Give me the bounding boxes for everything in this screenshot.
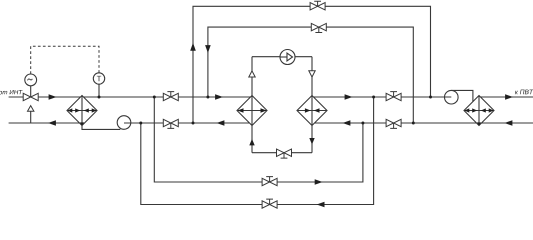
wire: HX3 top riser [311, 57, 313, 96]
junction: B1 on return [361, 122, 364, 125]
wire: HX3 bottom drop [311, 126, 313, 153]
junction: M1 on return [192, 122, 195, 125]
flow arrow: left on circulation line B2 [317, 202, 325, 208]
wire: return main middle (HX3 to HX4) [313, 122, 478, 124]
wire: circulation line B2 (supply x373.6 down, y204.5 across, up to return x141) [141, 97, 374, 205]
flow arrow: return from right edge [505, 120, 513, 126]
wire: circulation top header [252, 56, 312, 58]
junction: B2 on return [139, 122, 142, 125]
wire: P3 discharge to HX4 [451, 90, 473, 101]
flow arrow: open triangle up on HX2 riser [249, 71, 255, 77]
flow arrow: right on bypass B1 [315, 179, 323, 185]
wire: HX2 top riser [251, 57, 253, 96]
flow arrow: supply after 3-way valve [49, 94, 57, 100]
flow arrow: down from HX3 bottom [309, 138, 314, 145]
junction: B2 on supply [372, 96, 375, 99]
wire: supply from HX3 into P3 [314, 96, 452, 98]
flow arrow: up on mixing line M1 [190, 43, 196, 51]
actuator stem [30, 86, 32, 97]
flow arrow: open triangle down on HX3 riser [309, 71, 315, 77]
heat exchanger HX2 (middle left) [237, 96, 267, 126]
temperature sensor stem [98, 84, 100, 97]
junction: M1 on supply [429, 96, 432, 99]
wire: HX2 bottom drop [251, 126, 253, 153]
valve V3 (return, middle) [163, 119, 178, 128]
wire: mixing line M1 (return x193 up, top header y6, down to supply x430) [193, 6, 431, 123]
wire: 3-way valve bottom port to return [30, 111, 32, 123]
flow arrow: return toward HX3 [343, 120, 351, 126]
flow arrow: return toward left edge [48, 120, 56, 126]
node label: от ИНТ [0, 90, 23, 94]
wire: circulation bottom header [252, 152, 312, 154]
valve V9 (bypass B1) [262, 177, 277, 186]
flow arrow: supply before HX2 [215, 94, 223, 100]
heat exchanger HX4 (right) [464, 96, 494, 126]
flow arrow: down on mixing line M2 [205, 45, 211, 53]
control link: dashed line actuator to T sensor [31, 46, 99, 74]
valve V2 (supply, middle) [163, 92, 178, 101]
valve V6 (circulation bottom header) [277, 149, 292, 158]
valve V5 (header y27) [311, 23, 326, 32]
junction: M2 on return [412, 122, 415, 125]
flow arrow: return from HX2 [217, 120, 225, 126]
pump P3 (on supply before HX4) [445, 90, 459, 104]
junction: B1 on supply [153, 96, 156, 99]
wire: mixing line M2 (supply x208 up, header y27, down to return x413) [208, 27, 413, 123]
temperature sensor T1 (circle with T) [93, 73, 104, 84]
pump P1 (circulation pump on return, left) [117, 116, 131, 130]
wire: return from P1 to HX2 [124, 122, 250, 124]
heat exchanger HX1 (1st stage, left) [67, 96, 97, 126]
wire: bypass B1 (supply x154 down, y182 across, up to return x363) [154, 97, 363, 182]
valve V8 (return, right) [386, 119, 401, 128]
actuator M1 (electric drive, circle with ~) [25, 74, 37, 86]
valve V10 (circulation line B2) [262, 199, 277, 208]
wire: supply main right (HX4 to ПВТ) [479, 96, 533, 98]
wire: return main left (HX1 outlet to left edge) [9, 122, 81, 124]
junction: M2 on supply [206, 96, 209, 99]
junction: T sensor on supply [98, 96, 101, 99]
wire: pump P1 suction from HX1 bottom [82, 126, 120, 130]
flow arrow: supply after HX3 [345, 94, 353, 100]
flow arrow: supply to ПВТ [505, 94, 513, 100]
valve V7 (supply, right) [386, 92, 401, 101]
pump P2 (circulation pump, top center) [280, 50, 295, 65]
wire: supply main left (от ИНТ to HX2 inlet) [9, 96, 251, 98]
flow arrow: up into HX2 bottom [249, 139, 254, 146]
wire: return main right (right edge to HX4) [479, 122, 533, 124]
valve V1 (3-way control valve on supply inlet) [23, 93, 38, 111]
node label: к ПВТ [515, 90, 533, 95]
heat exchanger HX3 (middle right) [297, 96, 327, 126]
valve V4 (top header y6) [310, 1, 325, 10]
